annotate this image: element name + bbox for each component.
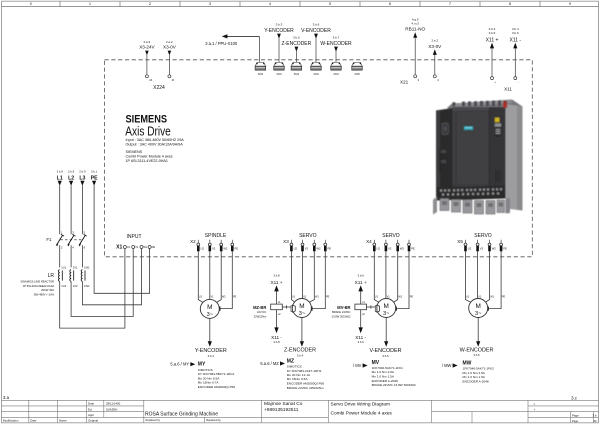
svg-text:+: + xyxy=(534,407,536,411)
svg-text:PE: PE xyxy=(233,295,237,298)
svg-text:Date: Date xyxy=(88,402,94,406)
header column strip xyxy=(2,1,599,6)
svg-text:X3-0V: X3-0V xyxy=(163,45,177,50)
terminal X3:U2 xyxy=(290,240,298,252)
svg-text:RB11-NO: RB11-NO xyxy=(405,26,425,31)
svg-text:=: = xyxy=(534,402,536,406)
svg-text:Input : 3AC 380-480V 50/60HZ 2: Input : 3AC 380-480V 50/60HZ 29A xyxy=(126,138,185,142)
terminal X4:U2 xyxy=(373,240,381,252)
supply L1 (2.b.9) xyxy=(57,170,64,235)
svg-text:V2: V2 xyxy=(305,247,309,251)
svg-text:Combi Power Module 4 axes: Combi Power Module 4 axes xyxy=(331,411,393,417)
svg-text:X3-24V: X3-24V xyxy=(139,45,155,50)
svg-text:MZ: MZ xyxy=(287,358,294,364)
wire PE feed down and to X1:PE xyxy=(94,185,150,293)
svg-text:X11: X11 xyxy=(504,87,512,92)
svg-text:0: 0 xyxy=(30,2,32,6)
svg-text:W1: W1 xyxy=(222,295,226,298)
svg-text:1V2: 1V2 xyxy=(73,284,78,288)
svg-text:X103: X103 xyxy=(313,74,319,76)
MW PE plug xyxy=(486,307,488,311)
svg-text:2.b.9: 2.b.9 xyxy=(57,170,64,174)
svg-text:U2: U2 xyxy=(294,247,298,251)
circuit breaker F1 xyxy=(46,231,86,268)
wire MZ to encoder xyxy=(301,318,303,342)
motor MY terminals U1 V1 W1 PE xyxy=(199,295,237,298)
wire PPU-X100 to X100 xyxy=(258,36,260,62)
svg-text:Name: Name xyxy=(59,419,67,423)
svg-text:3.b.1: 3.b.1 xyxy=(91,170,98,174)
svg-text:3~: 3~ xyxy=(299,311,306,317)
brake coil MZ-BR xyxy=(271,301,283,316)
terminal X11:+ xyxy=(491,77,497,84)
wire MY phase W xyxy=(216,251,222,303)
svg-text:3: 3 xyxy=(209,2,211,6)
svg-text:1U1: 1U1 xyxy=(61,266,66,270)
signal X11 + (3.b.4 / 3.b.6) xyxy=(486,27,499,77)
motor MV nameplate xyxy=(372,360,416,387)
signal Z-ENCODER (3.b.5) xyxy=(282,36,312,63)
svg-text:X11 +: X11 + xyxy=(270,280,282,285)
svg-text:SINAMICS: SINAMICS xyxy=(439,149,443,172)
wire MY phase V xyxy=(209,251,211,299)
svg-text:X11 +: X11 + xyxy=(486,37,499,43)
svg-text:3.b.5: 3.b.5 xyxy=(382,354,389,358)
svg-text:SERVO: SERVO xyxy=(299,233,317,239)
line reactor LR xyxy=(20,266,90,297)
svg-text:3.b: 3.b xyxy=(592,413,596,417)
svg-text:Servo Drive Wiring Diagram: Servo Drive Wiring Diagram xyxy=(331,402,390,408)
svg-text:X11 +: X11 + xyxy=(355,280,367,285)
connector X105 xyxy=(352,62,363,76)
wire MY to encoder xyxy=(209,318,211,341)
svg-text:3.b.4: 3.b.4 xyxy=(489,27,496,31)
svg-text:3.a: 3.a xyxy=(3,395,10,400)
svg-text:MV-BR: MV-BR xyxy=(337,305,350,310)
svg-text:3.b.5: 3.b.5 xyxy=(473,353,480,357)
svg-text:SINAMICS LINE REACTOR: SINAMICS LINE REACTOR xyxy=(20,280,54,284)
wire MV phase U xyxy=(374,251,380,303)
supply L3 (2.b.9) xyxy=(79,170,86,235)
motor MZ terminals U1 V1 W1 PE xyxy=(292,295,330,298)
breaker pole 1-2 xyxy=(56,231,64,268)
node W-ENCODER bottom xyxy=(460,348,494,358)
svg-text:LR: LR xyxy=(48,273,55,279)
signal X11 - (3.b.4 / 3.b.6) xyxy=(510,27,522,77)
svg-text:PE: PE xyxy=(326,295,330,298)
svg-text:3~: 3~ xyxy=(383,311,390,317)
svg-text:2.b.9: 2.b.9 xyxy=(68,170,75,174)
svg-text:2.a.3: 2.a.3 xyxy=(144,40,151,44)
wire MV phase V xyxy=(385,251,387,299)
signal X3-24V (2.a.3) xyxy=(139,40,155,75)
wire MW phase W xyxy=(484,251,490,303)
brake coil MV-BR xyxy=(355,301,367,316)
terminal X4:PE xyxy=(408,240,415,252)
svg-text:Date: Date xyxy=(30,419,36,423)
svg-text:X3: X3 xyxy=(283,239,289,244)
wire 1W2 to X1:W1 xyxy=(82,248,141,304)
label 5.a.6 / MZ pointer xyxy=(260,361,285,366)
svg-text:BRAKE 24VDC 22W22Nm: BRAKE 24VDC 22W22Nm xyxy=(287,386,324,390)
wire brake to motor plug xyxy=(282,305,291,308)
svg-text:4.m.3: 4.m.3 xyxy=(411,22,419,26)
svg-text:ENCODER A-2048: ENCODER A-2048 xyxy=(463,379,489,383)
svg-text:2: 2 xyxy=(149,2,151,6)
svg-text:X2: X2 xyxy=(190,239,196,244)
svg-text:3.b.6: 3.b.6 xyxy=(358,340,365,344)
svg-text:3.b.6: 3.b.6 xyxy=(489,31,496,35)
node Z-ENCODER bottom xyxy=(284,347,316,357)
svg-text:3.b.8: 3.b.8 xyxy=(273,274,280,278)
terminal X3:PE xyxy=(324,240,331,252)
signal X11 + (3.b.8) brake xyxy=(270,274,282,305)
motor MV xyxy=(377,299,396,318)
svg-text:7: 7 xyxy=(449,2,451,6)
svg-text:8: 8 xyxy=(509,2,511,6)
svg-text:X105: X105 xyxy=(354,74,360,76)
breaker pole 3-4 xyxy=(68,231,76,268)
svg-text:Modification: Modification xyxy=(3,419,19,423)
terminal X5:W2 xyxy=(488,240,496,252)
svg-text:3.c: 3.c xyxy=(571,396,578,401)
svg-text:Page: Page xyxy=(572,413,579,417)
signal X11 - (3.b.8) brake xyxy=(271,310,282,344)
svg-text:ENCODER AM2000QI P56: ENCODER AM2000QI P56 xyxy=(198,385,236,389)
svg-text:PE: PE xyxy=(328,247,332,251)
svg-text:SERVO: SERVO xyxy=(474,233,492,239)
MZ brake plug xyxy=(293,305,296,312)
svg-text:INPUT: INPUT xyxy=(127,234,142,240)
terminal strip X1 INPUT xyxy=(116,234,155,251)
wire MW to encoder xyxy=(477,318,479,342)
wire MW phase U xyxy=(466,251,473,303)
svg-text:W2: W2 xyxy=(223,247,228,251)
signal X3-0V (2.e.2) right xyxy=(428,39,442,75)
drive nameplate text block xyxy=(125,114,184,164)
svg-text:X101: X101 xyxy=(276,74,282,76)
svg-text:24V DC: 24V DC xyxy=(257,310,266,314)
signal X3-0V (2.a.2) xyxy=(163,40,177,75)
terminal strip X3 SERVO xyxy=(283,233,316,244)
connector X101 xyxy=(274,62,285,76)
svg-text:M: M xyxy=(476,303,481,310)
wire MZ phase W xyxy=(308,251,315,303)
signal 3.a.1 / PPU-X100 xyxy=(205,34,259,46)
connector X104 xyxy=(331,62,342,76)
svg-text:28/11/1400: 28/11/1400 xyxy=(106,402,121,406)
svg-text:X224: X224 xyxy=(153,85,165,91)
label 5.a.6 / MW pointer xyxy=(442,363,458,368)
svg-text:X5: X5 xyxy=(457,239,463,244)
motor MY xyxy=(200,299,219,318)
svg-text:V2: V2 xyxy=(388,247,392,251)
terminal strip X2 SPINDLE xyxy=(190,233,227,244)
svg-text:22W22Nm: 22W22Nm xyxy=(254,314,267,318)
terminal X5:PE xyxy=(500,240,507,252)
svg-text:W-ENCODER: W-ENCODER xyxy=(320,41,352,47)
supply L2 (2.b.9) xyxy=(68,170,75,235)
svg-text:V2: V2 xyxy=(212,247,216,251)
svg-text:2.e.2: 2.e.2 xyxy=(431,39,438,43)
breaker pole 5-6 xyxy=(79,231,87,268)
connector X102 xyxy=(291,62,302,76)
svg-text:Axis Drive: Axis Drive xyxy=(125,124,171,139)
svg-text:W1: W1 xyxy=(144,246,148,249)
wire brake to motor plug xyxy=(367,305,376,308)
svg-text:+989135192511: +989135192511 xyxy=(264,407,299,413)
svg-text:3~: 3~ xyxy=(207,312,214,318)
breaker mechanical link xyxy=(61,239,82,241)
svg-text:3.b.6: 3.b.6 xyxy=(313,23,320,27)
wire MW phase V xyxy=(477,251,479,299)
svg-text:Ed.: Ed. xyxy=(88,407,93,411)
svg-text:Replaced by: Replaced by xyxy=(206,418,221,422)
svg-text:1: 1 xyxy=(89,2,91,6)
reactor coil 1W1/1W2 xyxy=(81,266,90,288)
wire 1U2 to X1:U1 xyxy=(60,248,125,328)
signal X11 + (3.b.6) brake xyxy=(355,274,367,305)
drive unit photo xyxy=(433,100,523,215)
svg-text:4: 4 xyxy=(269,2,271,6)
wire MY PE xyxy=(219,251,232,308)
node Y-ENCODER bottom xyxy=(195,348,227,358)
svg-text:Original: Original xyxy=(88,419,98,423)
svg-text:M: M xyxy=(172,78,174,82)
svg-text:MW: MW xyxy=(463,360,472,366)
svg-text:W1: W1 xyxy=(490,295,494,298)
signal RB11-NO (4.g.5 / 4.m.3) xyxy=(405,18,425,75)
svg-text:3.b.4: 3.b.4 xyxy=(208,354,215,358)
svg-text:MZ-BR: MZ-BR xyxy=(253,305,266,310)
svg-text:6: 6 xyxy=(389,2,391,6)
svg-text:PE: PE xyxy=(235,247,239,251)
terminal X21:3 xyxy=(400,75,420,85)
label 5.a.6 / MY pointer xyxy=(170,362,195,367)
svg-text:W1: W1 xyxy=(398,295,402,298)
svg-text:SERVO: SERVO xyxy=(382,233,400,239)
svg-text:Output : 3AC 400V 30A/12A/9A/9: Output : 3AC 400V 30A/12A/9A/9A xyxy=(126,143,184,147)
svg-text:MY: MY xyxy=(198,362,206,368)
terminal X224:24 xyxy=(145,75,152,82)
MY PE plug xyxy=(218,307,220,311)
svg-text:W2: W2 xyxy=(317,247,322,251)
terminal strip X5 SERVO xyxy=(457,233,492,244)
svg-text:U2: U2 xyxy=(201,247,205,251)
motor MW terminals U1 V1 W1 PE xyxy=(466,295,505,298)
svg-text:5: 5 xyxy=(329,2,331,6)
svg-text:X102: X102 xyxy=(294,74,300,76)
svg-text:SIEMENS: SIEMENS xyxy=(126,150,143,154)
signal V-ENCODER (3.b.6) xyxy=(301,23,331,63)
motor MW nameplate xyxy=(463,360,495,383)
terminal X4:V2 xyxy=(385,240,392,252)
svg-text:3.b.6: 3.b.6 xyxy=(358,274,365,278)
svg-text:ROSA Surface Grinding Machine: ROSA Surface Grinding Machine xyxy=(145,412,218,418)
svg-text:W2: W2 xyxy=(492,247,497,251)
svg-text:Combi Power Module 4 axes: Combi Power Module 4 axes xyxy=(126,155,173,159)
svg-text:3~: 3~ xyxy=(475,311,482,317)
svg-text:PE: PE xyxy=(152,245,156,249)
svg-text:L3: L3 xyxy=(79,175,85,181)
svg-text:Replaced by: Replaced by xyxy=(146,418,161,422)
terminal X5:V2 xyxy=(476,240,483,252)
svg-text:5.a.6 / MY: 5.a.6 / MY xyxy=(170,362,189,367)
wire MV PE xyxy=(395,251,409,308)
svg-text:/ MW: / MW xyxy=(442,363,452,368)
reactor coil 1U1/1U2 xyxy=(58,266,66,288)
terminal X2:U2 xyxy=(197,240,205,252)
wire MZ phase V xyxy=(302,251,304,299)
svg-text:3.b.4: 3.b.4 xyxy=(512,27,519,31)
svg-text:X104: X104 xyxy=(333,74,339,76)
svg-text:3.b.7: 3.b.7 xyxy=(333,36,340,40)
svg-text:Z-ENCODER: Z-ENCODER xyxy=(282,41,312,47)
svg-text:Appr: Appr xyxy=(88,413,94,417)
wire MY phase U xyxy=(198,251,204,303)
svg-text:X4: X4 xyxy=(366,239,372,244)
supply PE (3.b.1) xyxy=(91,170,98,186)
svg-text:U2: U2 xyxy=(468,247,472,251)
terminal strip X4 SERVO xyxy=(366,233,400,244)
svg-text:20KW 30A: 20KW 30A xyxy=(41,288,54,292)
svg-text:Y-ENCODER: Y-ENCODER xyxy=(264,28,294,34)
svg-text:1P 6SL3111-4VE22-0HA1: 1P 6SL3111-4VE22-0HA1 xyxy=(126,159,168,163)
svg-text:1P 6SL3100-0EE22-0AA0: 1P 6SL3100-0EE22-0AA0 xyxy=(23,284,55,288)
terminal X3:W2 xyxy=(313,240,321,252)
svg-text:X100: X100 xyxy=(258,74,264,76)
svg-text:V-ENCODER: V-ENCODER xyxy=(301,28,331,34)
terminal X11:- xyxy=(504,77,519,92)
svg-text:SPINDLE: SPINDLE xyxy=(205,233,227,239)
svg-text:W2: W2 xyxy=(400,247,405,251)
signal W-ENCODER (3.b.7) xyxy=(320,36,352,63)
terminal X5:U2 xyxy=(464,240,472,252)
MZ PE plug xyxy=(310,307,312,311)
svg-text:L1: L1 xyxy=(57,175,63,181)
svg-text:1W2: 1W2 xyxy=(84,284,90,288)
connector X103 xyxy=(311,62,322,76)
svg-text:13.8W 3001602: 13.8W 3001602 xyxy=(332,314,351,318)
title block xyxy=(2,400,599,423)
svg-text:2.b.9: 2.b.9 xyxy=(79,170,86,174)
terminal X3:V2 xyxy=(301,240,308,252)
MV PE plug xyxy=(394,307,396,311)
connector X100 xyxy=(255,62,266,76)
svg-text:X3-0V: X3-0V xyxy=(428,44,442,49)
svg-text:3.b.5: 3.b.5 xyxy=(293,36,300,40)
terminal X2:PE xyxy=(231,240,238,252)
signal Y-ENCODER (3.b.3) xyxy=(264,23,294,63)
terminal X4:W2 xyxy=(396,240,404,252)
motor MW xyxy=(469,299,488,318)
svg-text:380-480V +-10%: 380-480V +-10% xyxy=(34,293,55,297)
svg-text:3.b.3: 3.b.3 xyxy=(276,23,283,27)
svg-text:1V1: 1V1 xyxy=(73,266,78,270)
svg-text:L2: L2 xyxy=(68,175,74,181)
svg-text:BRAKE 24VDC 13.8W 3001602: BRAKE 24VDC 13.8W 3001602 xyxy=(372,383,416,387)
svg-text:Majmoe Sanat Co: Majmoe Sanat Co xyxy=(264,401,303,407)
wire MW PE xyxy=(487,251,501,308)
svg-text:MV: MV xyxy=(372,360,380,366)
svg-text:M: M xyxy=(384,303,389,310)
wire MZ PE xyxy=(311,251,325,308)
svg-text:2.a.2: 2.a.2 xyxy=(166,40,173,44)
svg-text:M: M xyxy=(207,304,212,311)
svg-text:PE: PE xyxy=(411,247,415,251)
svg-text:X21: X21 xyxy=(400,79,409,84)
svg-text:-: - xyxy=(518,81,519,84)
svg-text:/ MV: / MV xyxy=(353,363,362,368)
svg-text:3.a.1 / PPU-X100: 3.a.1 / PPU-X100 xyxy=(205,41,238,46)
terminal X2:V2 xyxy=(208,240,215,252)
brake label MZ-BR xyxy=(253,305,267,318)
terminal X21:4 xyxy=(433,75,439,82)
svg-text:PE: PE xyxy=(502,295,506,298)
MV brake plug xyxy=(377,305,380,312)
svg-text:9: 9 xyxy=(569,2,571,6)
motor MY nameplate xyxy=(198,362,236,389)
wire MV to encoder xyxy=(385,318,387,342)
node V-ENCODER bottom xyxy=(369,348,401,358)
label 5.a.6 / MV pointer xyxy=(353,363,368,368)
svg-text:3.b.8: 3.b.8 xyxy=(273,340,280,344)
brake label MV-BR xyxy=(332,305,351,318)
svg-text:PE: PE xyxy=(410,295,414,298)
svg-text:3.b.4: 3.b.4 xyxy=(297,353,304,357)
reactor coil 1V1/1V2 xyxy=(70,266,78,288)
terminal X224:M xyxy=(168,75,174,82)
svg-text:X1: X1 xyxy=(116,245,122,251)
svg-text:M: M xyxy=(299,303,304,310)
motor MZ xyxy=(292,299,311,318)
svg-text:1U2: 1U2 xyxy=(61,284,66,288)
svg-text:PE: PE xyxy=(503,247,507,251)
svg-text:F1: F1 xyxy=(46,237,52,242)
wire 1V2 to X1:V1 xyxy=(71,248,133,316)
svg-text:5.a.6 / MZ: 5.a.6 / MZ xyxy=(260,361,279,366)
svg-text:V2: V2 xyxy=(480,247,484,251)
motor MZ nameplate xyxy=(287,358,325,390)
svg-text:BRAKE 24VDC: BRAKE 24VDC xyxy=(332,310,351,314)
dashed drive-unit boundary box xyxy=(105,60,533,257)
signal X11 - (3.b.6) brake xyxy=(355,310,366,344)
motor MV terminals U1 V1 W1 PE xyxy=(375,295,414,298)
svg-text:PE: PE xyxy=(91,175,98,181)
svg-text:3.b.6: 3.b.6 xyxy=(512,31,519,35)
svg-text:1W1: 1W1 xyxy=(84,266,90,270)
svg-text:U2: U2 xyxy=(377,247,381,251)
svg-text:SVAZEH: SVAZEH xyxy=(106,407,117,411)
wire MZ phase U xyxy=(291,251,296,303)
wire MV phase W xyxy=(392,251,398,303)
svg-text:X11 -: X11 - xyxy=(510,37,522,43)
svg-text:Page: Page xyxy=(572,419,579,423)
terminal X2:W2 xyxy=(220,240,228,252)
svg-text:W1: W1 xyxy=(315,295,319,298)
